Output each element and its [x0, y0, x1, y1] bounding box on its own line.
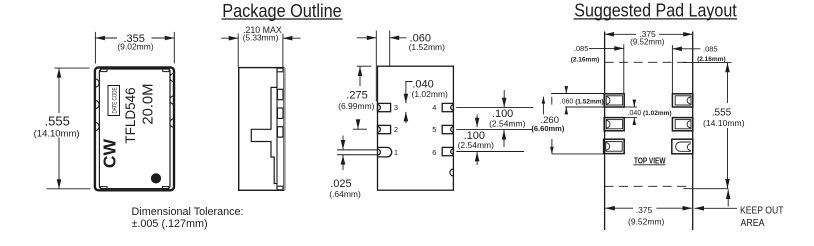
pin numbers [394, 103, 437, 157]
note: dimensional tolerance [132, 206, 244, 230]
lead frame profile [251, 87, 277, 183]
svg-text:TFLD546: TFLD546 [123, 87, 138, 143]
svg-text:(5.33mm): (5.33mm) [243, 33, 279, 43]
pads right column [672, 94, 693, 154]
svg-text:.375: .375 [636, 205, 653, 215]
svg-text:(2.54mm): (2.54mm) [489, 119, 526, 129]
svg-text:2: 2 [394, 125, 398, 134]
svg-text:6: 6 [432, 148, 436, 157]
svg-text:.275: .275 [346, 90, 367, 102]
svg-text:TOP VIEW: TOP VIEW [634, 156, 666, 165]
svg-text:(9.52mm): (9.52mm) [628, 216, 665, 226]
dim .085 left [589, 47, 624, 49]
svg-text:(1.02mm): (1.02mm) [412, 89, 449, 99]
svg-text:5: 5 [432, 125, 436, 134]
svg-text:(6.99mm): (6.99mm) [338, 101, 375, 111]
dim .100 (pads 4-5) [456, 90, 533, 165]
dim .040 leader [406, 82, 412, 124]
side castellation pads [277, 89, 283, 137]
column extension lines [605, 32, 693, 231]
svg-text:20.0M: 20.0M [141, 84, 157, 125]
svg-text:3: 3 [394, 103, 398, 112]
marking: DATE CODE box [108, 86, 120, 116]
lid corner marks [101, 68, 170, 189]
dim .210 MAX [221, 34, 300, 67]
svg-text:1: 1 [394, 148, 398, 157]
dim .375 bottom [605, 207, 692, 209]
svg-text:4: 4 [432, 103, 436, 112]
dim .260 [543, 97, 604, 154]
dim .375 top [605, 33, 693, 35]
body [378, 66, 454, 190]
svg-text:(2.54mm): (2.54mm) [458, 140, 495, 150]
svg-text:(.64mm): (.64mm) [329, 189, 361, 199]
svg-text:±.005 (.127mm): ±.005 (.127mm) [132, 218, 208, 230]
dim .025 [342, 136, 344, 171]
svg-text:.060: .060 [560, 98, 574, 105]
right edge castellation notches [170, 73, 174, 127]
svg-text:(6.60mm): (6.60mm) [531, 124, 564, 133]
dim .555 left of left view [47, 68, 91, 189]
seam line [276, 68, 278, 191]
title: Suggested Pad Layout [574, 0, 738, 21]
pad 5 [442, 125, 453, 133]
pad 1 [337, 147, 392, 157]
svg-text:AREA: AREA [741, 218, 765, 229]
svg-text:Dimensional Tolerance:: Dimensional Tolerance: [132, 206, 244, 218]
svg-text:Package Outline: Package Outline [222, 0, 342, 21]
svg-text:.085: .085 [703, 44, 718, 53]
dim .060 left leader [551, 87, 604, 114]
dim .355 top of left view [95, 32, 174, 64]
svg-text:KEEP OUT: KEEP OUT [740, 205, 784, 216]
dim .085 right [672, 48, 700, 50]
svg-text:(14.10mm): (14.10mm) [703, 118, 745, 128]
body notch bottom right [450, 169, 453, 176]
pad 3 [378, 103, 391, 111]
svg-text:.040: .040 [628, 110, 642, 117]
pad 6 [442, 147, 453, 155]
svg-text:Suggested Pad Layout: Suggested Pad Layout [574, 0, 737, 21]
svg-text:(1.52mm): (1.52mm) [575, 98, 604, 105]
package body outline [95, 67, 174, 190]
svg-text:(1.02mm): (1.02mm) [643, 110, 672, 117]
pin 1 dot [151, 173, 161, 183]
title: Package Outline [222, 0, 343, 21]
svg-text:.085: .085 [574, 44, 589, 53]
dim .060 top of middle view [357, 31, 407, 102]
left edge castellation notches [95, 79, 99, 131]
side corner pads [277, 68, 283, 190]
dim .555 right [683, 63, 732, 207]
keep out dashed boundary [605, 62, 693, 186]
svg-text:DATE CODE: DATE CODE [112, 88, 118, 114]
pad 2 [378, 125, 391, 133]
svg-text:(14.10mm): (14.10mm) [34, 128, 80, 139]
svg-text:(1.52mm): (1.52mm) [409, 42, 446, 52]
pads left column [604, 94, 625, 154]
dim .040 leader [624, 100, 637, 125]
keep out leader [695, 207, 738, 209]
pad 4 [442, 103, 453, 111]
dim .275 [353, 66, 372, 129]
svg-text:(2.16mm): (2.16mm) [571, 57, 600, 64]
svg-text:CW: CW [100, 139, 120, 169]
svg-text:.555: .555 [45, 114, 70, 129]
lid outline [99, 69, 170, 189]
side body [239, 68, 285, 191]
svg-text:(9.02mm): (9.02mm) [117, 42, 154, 52]
svg-text:(9.52mm): (9.52mm) [630, 38, 665, 47]
